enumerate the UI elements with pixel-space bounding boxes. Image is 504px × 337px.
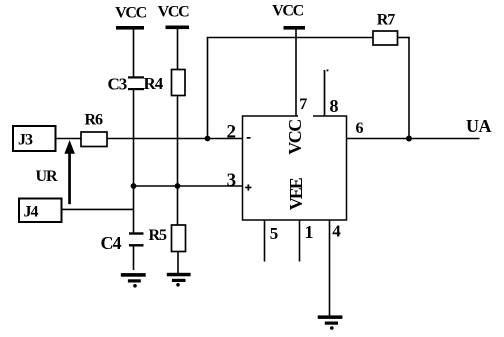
wire R6 to op-amp pin 2 (107, 138, 243, 140)
resistor R4 (144, 70, 186, 96)
svg-text:C4: C4 (101, 233, 122, 253)
wire R5 to ground (177, 252, 179, 274)
svg-text:7: 7 (299, 96, 307, 113)
wire VCC bar to R4 (177, 29, 179, 70)
svg-text:J4: J4 (24, 204, 39, 221)
ground under C4 (121, 273, 146, 288)
svg-text:5: 5 (270, 224, 279, 243)
capacitor C3 (108, 75, 145, 94)
svg-text:3: 3 (227, 170, 237, 191)
junction dot C3 branch (131, 183, 137, 189)
svg-text:2: 2 (226, 121, 236, 142)
wire pin 6 output (347, 138, 480, 140)
svg-text:VCC: VCC (115, 5, 147, 22)
op-amp U1 body (243, 116, 347, 220)
svg-text:R5: R5 (149, 227, 168, 244)
wire pin 5 stub (264, 220, 266, 262)
resistor R5 (149, 225, 186, 252)
junction dot output node (406, 136, 412, 142)
svg-text:8: 8 (330, 96, 339, 116)
arrow UR (64, 140, 75, 204)
wire top horizontal (VCC net to R7) (207, 37, 374, 39)
junction dot at VCC-net/pin2 line (205, 136, 211, 142)
capacitor C4 (101, 232, 144, 253)
wire VCC bar to C3 (133, 30, 135, 77)
ground under pin 4 (318, 315, 343, 329)
svg-text:C3: C3 (108, 75, 127, 94)
power symbol VCC (left, over C3) (115, 5, 147, 30)
svg-text:R4: R4 (144, 74, 164, 93)
wire pin 1 stub (299, 220, 301, 262)
wire J4 to C4 branch (62, 208, 134, 210)
wire pin 8 stub (324, 70, 326, 116)
minus input marker (247, 137, 251, 139)
resistor R7 (373, 11, 398, 45)
stray ink dot near pin 8 (327, 70, 329, 72)
power symbol VCC (third, over op-amp pin 7) (272, 3, 305, 30)
svg-text:J3: J3 (18, 132, 33, 149)
resistor R6 (81, 112, 107, 147)
svg-text:R6: R6 (85, 112, 104, 129)
svg-text:UA: UA (466, 116, 491, 136)
svg-text:1: 1 (305, 222, 314, 242)
wire pin 3 line (134, 185, 243, 187)
svg-text:VCC: VCC (158, 4, 190, 21)
junction dot R4 branch (175, 183, 181, 189)
svg-text:6: 6 (356, 120, 364, 137)
wire C4 to ground (133, 247, 135, 271)
svg-text:VEE: VEE (286, 177, 306, 210)
wire pin 4 to ground (329, 220, 331, 316)
wire vertical from top net down to pin2 line (207, 38, 209, 139)
wire R7 right to output vertical (398, 37, 410, 39)
svg-text:UR: UR (36, 168, 59, 185)
connector J3 (13, 126, 56, 151)
wire J3 to R6 (56, 138, 82, 140)
plus input marker (245, 184, 251, 190)
wire R4 bottom down to node (177, 96, 179, 226)
wire vertical R7 down to output node (408, 38, 410, 139)
wire C3 bottom down through node to C4 (133, 90, 135, 233)
ground under R5 (167, 273, 191, 287)
power symbol VCC (second, over R4) (158, 4, 190, 30)
svg-text:4: 4 (332, 222, 341, 241)
svg-text:R7: R7 (377, 11, 396, 28)
svg-text:VCC: VCC (272, 3, 304, 20)
svg-text:VCC: VCC (285, 120, 305, 155)
wire pin 7 vertical (VCC bar down to op-amp top) (295, 30, 297, 117)
connector J4 (19, 199, 62, 223)
